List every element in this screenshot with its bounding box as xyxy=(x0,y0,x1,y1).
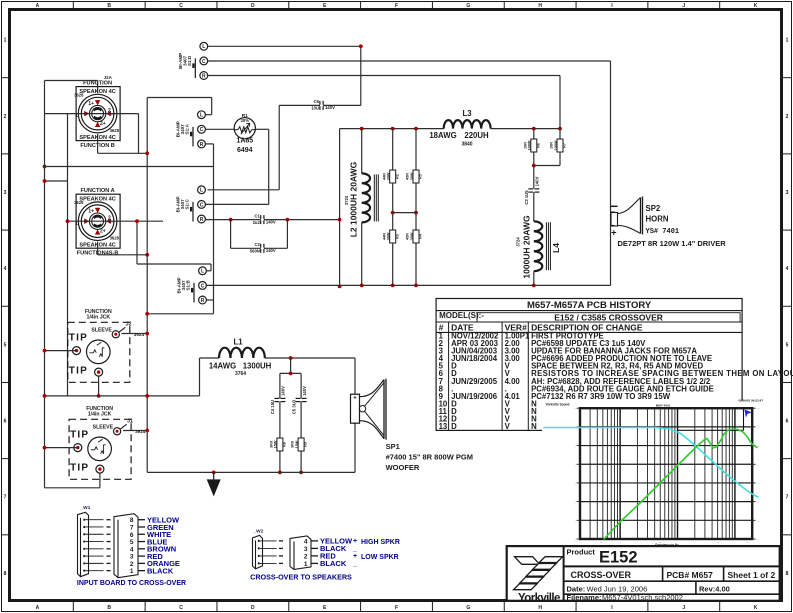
svg-text:K: K xyxy=(754,605,758,611)
svg-text:09/06/05 09:53:47: 09/06/05 09:53:47 xyxy=(738,399,763,403)
svg-text:--: -- xyxy=(600,541,602,545)
svg-text:BLACK: BLACK xyxy=(147,566,174,575)
svg-text:R2: R2 xyxy=(395,174,399,179)
svg-text:C: C xyxy=(201,283,205,289)
svg-text:560N: 560N xyxy=(250,249,260,254)
svg-text:--: -- xyxy=(747,541,749,545)
svg-text:R: R xyxy=(200,217,204,223)
svg-text:7: 7 xyxy=(130,524,134,531)
svg-text:Product: Product xyxy=(567,548,596,557)
svg-text:-: - xyxy=(575,538,576,542)
svg-text:E152: E152 xyxy=(599,549,638,567)
svg-text:FUNCTION A: FUNCTION A xyxy=(80,188,114,194)
svg-text:1000UH 20AWG: 1000UH 20AWG xyxy=(522,215,532,279)
svg-text:2: 2 xyxy=(4,114,7,120)
svg-text:R: R xyxy=(201,298,205,304)
svg-text:-: - xyxy=(758,463,759,467)
svg-text:R3: R3 xyxy=(395,234,399,239)
svg-text:13: 13 xyxy=(439,422,448,431)
svg-text:6: 6 xyxy=(786,419,789,425)
svg-text:_: _ xyxy=(352,418,357,424)
svg-text:1300UH: 1300UH xyxy=(243,361,272,370)
svg-text:140V: 140V xyxy=(325,105,335,110)
svg-text:CROSS-OVER TO SPEAKERS: CROSS-OVER TO SPEAKERS xyxy=(250,573,352,582)
svg-text:_: _ xyxy=(352,561,357,568)
svg-text:HIGH SPKR: HIGH SPKR xyxy=(361,539,400,546)
svg-text:CROSS-OVER: CROSS-OVER xyxy=(571,570,632,580)
svg-text:DE72PT 8R 120W 1.4" DRIVER: DE72PT 8R 120W 1.4" DRIVER xyxy=(618,239,727,248)
svg-text:100W: 100W xyxy=(554,140,558,150)
svg-text:-: - xyxy=(758,538,759,542)
svg-text:J: J xyxy=(682,605,685,611)
svg-text:Wed Jun 19, 2006: Wed Jun 19, 2006 xyxy=(587,585,648,594)
svg-text:PCB# M657: PCB# M657 xyxy=(667,570,714,580)
svg-text:WOOFER: WOOFER xyxy=(386,463,420,472)
svg-text:J2: J2 xyxy=(126,321,132,327)
svg-text:JUN/19/2006: JUN/19/2006 xyxy=(451,392,498,401)
svg-text:C2: C2 xyxy=(254,242,260,247)
svg-text:C1: C1 xyxy=(254,213,260,218)
svg-text:4: 4 xyxy=(786,266,789,272)
svg-text:20%: 20% xyxy=(241,118,250,123)
svg-text:JUN/29/2005: JUN/29/2005 xyxy=(451,377,498,386)
svg-text:3: 3 xyxy=(4,190,7,196)
svg-text:_: _ xyxy=(77,116,81,122)
svg-text:B: B xyxy=(107,605,111,611)
svg-text:2+: 2+ xyxy=(100,228,106,234)
svg-text:15W: 15W xyxy=(295,440,299,448)
svg-text:M657 4V01: M657 4V01 xyxy=(656,404,671,408)
svg-text:-: - xyxy=(758,425,759,429)
svg-text:140V: 140V xyxy=(281,386,286,396)
svg-text:8: 8 xyxy=(786,571,789,577)
svg-text:L2 1000UH 20AWG: L2 1000UH 20AWG xyxy=(348,161,358,237)
svg-text:YS# 7401: YS# 7401 xyxy=(646,228,680,236)
svg-text:_: _ xyxy=(352,546,357,553)
svg-text:30W: 30W xyxy=(387,172,391,180)
svg-text:30W: 30W xyxy=(410,232,414,240)
svg-text:SLEEVE: SLEEVE xyxy=(91,327,112,333)
svg-text:Yorkville Sound: Yorkville Sound xyxy=(546,403,570,407)
svg-text:TIP: TIP xyxy=(69,333,88,344)
svg-text:140V: 140V xyxy=(535,176,540,186)
svg-text:3628: 3628 xyxy=(74,200,84,205)
svg-text:140V: 140V xyxy=(266,248,276,253)
svg-text:2u2: 2u2 xyxy=(253,220,261,225)
svg-text:14AWG: 14AWG xyxy=(209,361,236,370)
svg-text:6: 6 xyxy=(4,419,7,425)
svg-text:-: - xyxy=(758,481,759,485)
svg-text:3: 3 xyxy=(304,546,308,553)
svg-text:1/4in JCK: 1/4in JCK xyxy=(88,411,112,417)
svg-text:4: 4 xyxy=(4,266,7,272)
svg-text:S1:C: S1:C xyxy=(185,199,190,210)
svg-text:HORN: HORN xyxy=(646,214,669,223)
svg-text:18AWG: 18AWG xyxy=(429,131,456,140)
svg-text:SP1: SP1 xyxy=(386,442,400,451)
svg-text:C: C xyxy=(200,202,204,208)
svg-text:M657-M657A PCB HISTORY: M657-M657A PCB HISTORY xyxy=(527,300,652,311)
svg-text:5: 5 xyxy=(4,342,7,348)
svg-text:Rev:4.00: Rev:4.00 xyxy=(699,585,730,594)
svg-text:+: + xyxy=(611,227,617,238)
svg-text:1: 1 xyxy=(304,561,308,568)
svg-text:-: - xyxy=(575,444,576,448)
svg-text:C: C xyxy=(200,127,204,133)
svg-text:C3 1U5: C3 1U5 xyxy=(524,190,529,205)
svg-text:220UH: 220UH xyxy=(464,131,489,140)
svg-text:Sheet 1 of 2: Sheet 1 of 2 xyxy=(728,570,776,580)
svg-text:Date:: Date: xyxy=(567,585,586,594)
svg-text:7: 7 xyxy=(4,495,7,501)
svg-text:5: 5 xyxy=(786,342,789,348)
svg-text:Yorkville: Yorkville xyxy=(518,592,560,604)
svg-text:+: + xyxy=(353,538,357,545)
svg-text:6494: 6494 xyxy=(237,147,253,154)
svg-text:3724: 3724 xyxy=(344,195,349,205)
svg-text:3628: 3628 xyxy=(74,92,84,97)
svg-text:140V: 140V xyxy=(302,386,307,396)
svg-text:N: N xyxy=(531,422,537,431)
svg-text:1: 1 xyxy=(4,38,7,44)
svg-text:-: - xyxy=(758,519,759,523)
svg-text:1+: 1+ xyxy=(88,101,94,107)
svg-text:TIP: TIP xyxy=(70,463,89,474)
svg-text:6: 6 xyxy=(130,532,134,539)
svg-text:8: 8 xyxy=(130,517,134,524)
svg-text:-: - xyxy=(575,463,576,467)
svg-text:1: 1 xyxy=(786,38,789,44)
svg-text:LOW SPKR: LOW SPKR xyxy=(361,554,399,561)
svg-text:D: D xyxy=(251,605,255,611)
svg-text:15W: 15W xyxy=(274,440,278,448)
svg-text:BLACK: BLACK xyxy=(320,559,347,568)
svg-text:4: 4 xyxy=(130,546,134,553)
svg-text:1: 1 xyxy=(130,568,134,575)
svg-text:L1: L1 xyxy=(233,338,243,347)
svg-text:-: - xyxy=(575,407,576,411)
svg-text:10U: 10U xyxy=(311,106,319,111)
svg-text:L: L xyxy=(200,113,203,119)
svg-text:C4 15U: C4 15U xyxy=(270,400,275,414)
svg-text:JUN/18/2004: JUN/18/2004 xyxy=(451,354,498,363)
svg-text:-: - xyxy=(758,407,759,411)
svg-text:_W1: _W1 xyxy=(80,505,91,511)
svg-text:1/4in JCK: 1/4in JCK xyxy=(86,314,110,320)
svg-text:R6: R6 xyxy=(536,143,540,148)
svg-text:2: 2 xyxy=(786,114,789,120)
svg-text:J1: J1 xyxy=(127,418,133,424)
svg-text:R9: R9 xyxy=(304,442,308,447)
svg-text:7: 7 xyxy=(786,495,789,501)
svg-text:3840: 3840 xyxy=(461,141,472,147)
svg-text:3628: 3628 xyxy=(110,128,120,133)
svg-text:H: H xyxy=(538,605,542,611)
svg-text:R8: R8 xyxy=(283,442,287,447)
svg-text:+: + xyxy=(353,396,357,402)
svg-text:L3: L3 xyxy=(462,109,472,118)
svg-text:PC#7132 R6 R7 3R9 10W TO 3R9 1: PC#7132 R6 R7 3R9 10W TO 3R9 15W xyxy=(531,392,671,401)
svg-text:_W2: _W2 xyxy=(253,528,264,534)
svg-text:-: - xyxy=(575,519,576,523)
svg-text:2: 2 xyxy=(130,561,134,568)
svg-text:3628: 3628 xyxy=(110,236,120,241)
svg-text:_: _ xyxy=(77,223,81,229)
svg-text:S1:D: S1:D xyxy=(187,55,192,66)
svg-text:C6: C6 xyxy=(314,99,320,104)
svg-text:L4: L4 xyxy=(551,243,561,253)
svg-text:5: 5 xyxy=(130,539,134,546)
svg-text:S1:A: S1:A xyxy=(185,123,190,134)
svg-text:F: F xyxy=(395,605,398,611)
svg-text:3: 3 xyxy=(130,554,134,561)
svg-text:140V: 140V xyxy=(266,219,276,224)
svg-text:INPUT BOARD TO CROSS-OVER: INPUT BOARD TO CROSS-OVER xyxy=(77,580,186,587)
svg-text:30W: 30W xyxy=(387,232,391,240)
svg-text:C: C xyxy=(179,605,183,611)
svg-text:4.00: 4.00 xyxy=(505,377,521,386)
svg-text:3924: 3924 xyxy=(135,429,146,434)
svg-text:A: A xyxy=(36,605,40,611)
svg-text:3764: 3764 xyxy=(235,371,246,377)
svg-text:SP2: SP2 xyxy=(646,204,661,213)
svg-text:V: V xyxy=(505,422,511,431)
svg-text:J2A: J2A xyxy=(104,75,113,80)
svg-text:C5 3U3: C5 3U3 xyxy=(291,399,296,414)
svg-text:R7: R7 xyxy=(563,143,567,148)
svg-text:S1:B: S1:B xyxy=(186,280,191,291)
svg-text:30W: 30W xyxy=(410,172,414,180)
svg-text:R5: R5 xyxy=(419,174,423,179)
svg-text:Filename:: Filename: xyxy=(567,593,602,602)
svg-text:R: R xyxy=(200,142,204,148)
svg-text:-: - xyxy=(575,500,576,504)
svg-text:G: G xyxy=(466,605,470,611)
svg-text:+: + xyxy=(353,553,357,560)
svg-text:2: 2 xyxy=(304,553,308,560)
svg-text:3924: 3924 xyxy=(134,332,145,337)
svg-text:1A85: 1A85 xyxy=(236,138,253,145)
svg-text:SLEEVE: SLEEVE xyxy=(93,424,114,430)
svg-text:1+: 1+ xyxy=(88,209,94,215)
svg-text:8: 8 xyxy=(4,571,7,577)
svg-text:-: - xyxy=(758,500,759,504)
svg-text:4: 4 xyxy=(304,538,308,545)
svg-text:100W: 100W xyxy=(528,140,532,150)
svg-text:#7400 15" 8R 800W PGM: #7400 15" 8R 800W PGM xyxy=(386,453,473,462)
svg-text:E152 / C3585 CROSSOVER: E152 / C3585 CROSSOVER xyxy=(554,312,663,322)
svg-text:-: - xyxy=(758,444,759,448)
svg-text:R: R xyxy=(202,73,206,79)
svg-text:3724: 3724 xyxy=(516,237,521,247)
svg-text:L: L xyxy=(200,188,203,194)
svg-text:C: C xyxy=(202,59,206,65)
svg-text:D: D xyxy=(451,422,457,431)
svg-text:-: - xyxy=(575,481,576,485)
svg-text:--: -- xyxy=(717,541,719,545)
svg-text:M657-4V01sch.sch2002: M657-4V01sch.sch2002 xyxy=(602,593,683,602)
svg-text:TIP: TIP xyxy=(70,430,89,441)
svg-text:2+: 2+ xyxy=(100,121,106,127)
svg-text:3: 3 xyxy=(786,190,789,196)
svg-text:L: L xyxy=(201,269,204,275)
svg-text:L: L xyxy=(202,44,205,50)
svg-text:SPEAKON 4C: SPEAKON 4C xyxy=(79,197,115,203)
svg-text:TIP: TIP xyxy=(69,366,88,377)
